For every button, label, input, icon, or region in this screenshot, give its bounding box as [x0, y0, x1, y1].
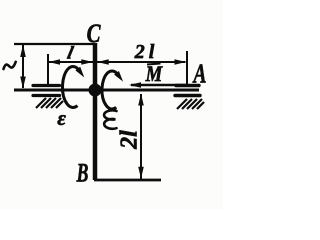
- moment M arrow line: [131, 84, 186, 86]
- svg-text:C: C: [87, 20, 101, 49]
- bottom extension line at B: [94, 179, 161, 182]
- svg-text:A: A: [192, 60, 207, 90]
- right bearing lower bar: [175, 94, 200, 97]
- left extension line above bearing: [47, 54, 49, 85]
- label l (rotated) for vertical dimension: [4, 62, 16, 69]
- shaft (horizontal axle through bearings): [14, 89, 199, 92]
- extension line from C to the left: [14, 43, 95, 45]
- omega arc arrowhead: [114, 71, 123, 82]
- dimension l vertical bottom arrowhead: [20, 77, 26, 89]
- dimension l vertical (left) line: [22, 45, 24, 88]
- dimension l horizontal left arrowhead: [49, 59, 61, 64]
- dimension l vertical top arrowhead: [20, 45, 26, 58]
- right extension line above bearing: [186, 51, 188, 86]
- right bearing hatching: [177, 99, 204, 109]
- dimension l horizontal line: [48, 61, 93, 63]
- angular velocity arc omega: [102, 71, 118, 109]
- svg-text:2l: 2l: [117, 130, 143, 150]
- moment M arrowhead: [129, 82, 141, 88]
- dimension 2l right arrowhead: [175, 59, 187, 64]
- dimension 2l vertical line: [140, 94, 142, 179]
- dimension 2l vertical top arrowhead: [138, 94, 144, 106]
- svg-text:ε: ε: [57, 106, 66, 130]
- epsilon arc arrowhead: [75, 67, 84, 78]
- paper background: [0, 0, 223, 209]
- angular acceleration arc epsilon: [62, 67, 79, 108]
- dimension 2l vertical bottom arrowhead: [138, 167, 144, 179]
- svg-text:B: B: [76, 158, 89, 187]
- dimension l horizontal right arrowhead: [81, 59, 93, 64]
- left bearing hatching: [36, 98, 63, 108]
- dimension 2l top line: [97, 61, 186, 63]
- rod BC (vertical bar): [93, 43, 98, 180]
- svg-text:2l: 2l: [134, 41, 159, 63]
- left bearing upper bar: [33, 84, 60, 87]
- right bearing upper bar: [176, 84, 199, 87]
- M overbar: [147, 64, 161, 65]
- svg-text:M: M: [145, 63, 163, 87]
- label omega (rotated): [104, 110, 116, 128]
- dimension 2l left arrowhead: [97, 59, 109, 64]
- joint at rod/shaft crossing: [89, 84, 102, 97]
- left bearing lower bar: [33, 94, 60, 97]
